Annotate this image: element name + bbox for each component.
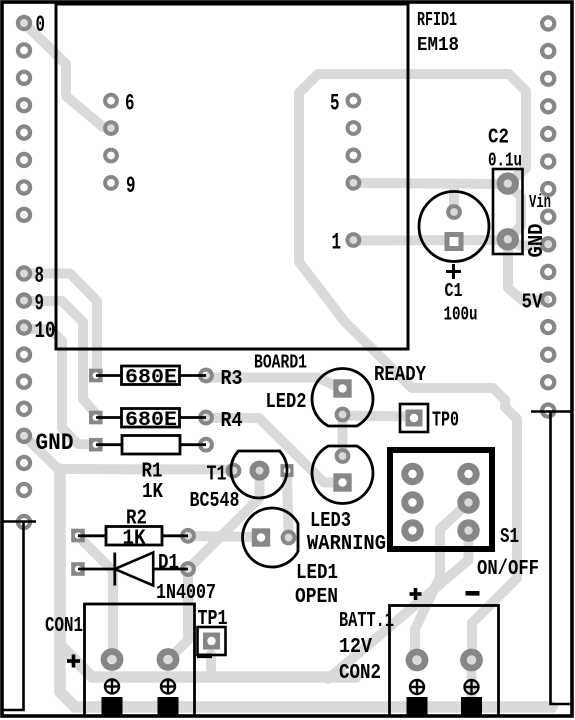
label CON2 plus — [410, 588, 422, 600]
svg-text:5V: 5V — [522, 292, 543, 315]
connector CON2 outline — [390, 606, 499, 717]
LED3 pads — [337, 450, 349, 462]
TP1 outline — [198, 627, 226, 655]
svg-text:S1: S1 — [500, 526, 519, 549]
wire C1 plus stub — [449, 184, 459, 212]
left socket strip outline — [2, 520, 36, 523]
CON1 legs — [102, 697, 123, 717]
wire GND branch down left side — [60, 469, 552, 707]
svg-text:1K: 1K — [142, 481, 163, 504]
svg-text:R4: R4 — [221, 410, 243, 433]
svg-text:9: 9 — [35, 291, 45, 317]
wire D1 cathode to CON1 minus — [168, 569, 188, 660]
svg-text:6: 6 — [125, 91, 135, 117]
wire TP1 stub — [206, 654, 216, 677]
label CON2 minus — [466, 591, 480, 596]
svg-text:T1: T1 — [207, 464, 227, 487]
svg-text:BC548: BC548 — [190, 490, 240, 513]
wire header pin1 to C1/C2 — [353, 235, 505, 246]
svg-text:100u: 100u — [444, 304, 478, 326]
wire T1 collector to LED1 — [287, 471, 289, 536]
svg-text:Vin: Vin — [529, 193, 551, 213]
wire S1 pin6 to bottom bus — [328, 531, 469, 680]
svg-text:RFID1: RFID1 — [417, 9, 457, 31]
svg-text:C2: C2 — [488, 127, 509, 150]
svg-text:OPEN: OPEN — [295, 586, 338, 609]
CON2 legs — [407, 697, 428, 717]
LED1 pads — [252, 528, 270, 546]
svg-text:1N4007: 1N4007 — [156, 582, 216, 605]
R1 pads — [89, 438, 103, 452]
svg-text:1K: 1K — [123, 528, 146, 551]
wire top bus from board to C2 — [299, 74, 526, 184]
LED2 pads — [333, 379, 351, 397]
svg-text:0.1u: 0.1u — [488, 150, 522, 172]
wire header pin4 to C2 pad1 — [353, 183, 505, 184]
T1 pads — [228, 465, 240, 477]
mid header pins 5-1 — [348, 95, 360, 107]
wire R4 to LED3 anode — [207, 418, 342, 483]
wire LED1 anode to R2 — [190, 536, 261, 537]
svg-text:WARNING: WARNING — [307, 533, 386, 556]
R2 pads — [71, 529, 85, 543]
wire S1 pin4 to CON2 plus — [415, 503, 469, 660]
wire LED2 to LED3 — [338, 415, 348, 457]
svg-text:BATT.1: BATT.1 — [339, 610, 394, 633]
CON1 screw heads — [105, 680, 119, 694]
svg-text:680E: 680E — [125, 409, 177, 432]
wire vertical from top bus down right side of board — [299, 93, 493, 388]
resistor R1 — [96, 436, 206, 455]
header J-left pins 0-7 — [18, 17, 30, 29]
svg-text:TP0: TP0 — [432, 410, 459, 433]
resistor R2 — [78, 527, 188, 551]
svg-text:LED3: LED3 — [310, 510, 351, 533]
D1 pads — [71, 562, 85, 576]
wire right bus down to CON2 minus — [472, 388, 517, 660]
svg-text:12V: 12V — [339, 636, 372, 659]
header right power pins — [542, 17, 554, 29]
TP1 pad — [203, 633, 220, 650]
C2 pads — [500, 176, 515, 191]
svg-text:1: 1 — [332, 230, 342, 256]
wire pad0 to inner header pin — [24, 23, 111, 128]
transistor T1 outline — [231, 451, 287, 498]
header J-left pins 8-GND — [18, 267, 30, 279]
svg-text:10: 10 — [35, 318, 56, 344]
wire pad10 to R1 — [24, 329, 96, 445]
C1 pads — [448, 206, 460, 218]
wire C2 pad2 to GND pin — [508, 240, 548, 246]
wire R2 pad1 to CON1 plus — [78, 536, 113, 659]
wire C2 pad2 to 5V pin — [508, 240, 545, 301]
wire GND pad to T1 — [24, 436, 233, 470]
board1 module outline — [56, 4, 408, 349]
svg-text:R2: R2 — [126, 508, 147, 531]
svg-text:8: 8 — [35, 263, 45, 289]
CON2 pads — [409, 652, 425, 668]
svg-text:5: 5 — [330, 91, 340, 117]
wire R3 to LED2 anode — [207, 378, 342, 390]
diode D1 — [78, 553, 188, 586]
svg-text:CON2: CON2 — [339, 662, 381, 685]
CON2 screw heads — [410, 680, 424, 694]
svg-text:C1: C1 — [445, 280, 463, 302]
svg-text:680E: 680E — [125, 367, 177, 390]
svg-text:READY: READY — [374, 364, 426, 387]
wire LED2 cathode to TP0 — [342, 416, 413, 417]
svg-text:TP1: TP1 — [198, 608, 228, 631]
TP0 outline — [400, 404, 428, 432]
svg-text:LED2: LED2 — [266, 391, 307, 414]
svg-text:BOARD1: BOARD1 — [254, 352, 307, 374]
wire branch to mid bus — [60, 645, 356, 677]
svg-text:ON/OFF: ON/OFF — [477, 558, 539, 581]
LED3 outline — [312, 446, 373, 503]
LED1 outline — [243, 508, 298, 567]
svg-text:D1: D1 — [158, 552, 179, 575]
label CON1 minus — [197, 654, 212, 659]
svg-text:GND: GND — [36, 430, 74, 456]
wire T1 base to D1 — [188, 471, 260, 569]
LED2 outline — [312, 369, 373, 426]
TP0 pad — [406, 410, 423, 427]
via pad bottom-left with outline cross — [18, 516, 30, 528]
wire CON2 minus pad to bottom bus — [467, 660, 477, 707]
label CON1 plus — [67, 655, 80, 668]
wire C2 pad1 to C2 pad2 — [508, 184, 521, 239]
svg-text:R3: R3 — [221, 368, 243, 391]
resistor R4 — [96, 409, 206, 433]
via pad right with outline cross — [542, 405, 554, 417]
svg-text:LED1: LED1 — [296, 562, 338, 585]
right socket strip outline — [531, 410, 572, 413]
svg-text:EM18: EM18 — [417, 34, 459, 56]
C2 outline — [493, 169, 523, 254]
connector CON1 outline — [85, 604, 195, 716]
wire pad8 to R3 — [24, 274, 97, 373]
C1 plus sign — [446, 264, 461, 279]
R4 pads — [89, 411, 103, 425]
svg-text:GND: GND — [526, 224, 549, 258]
S1 pads — [405, 466, 420, 481]
svg-text:9: 9 — [126, 173, 136, 199]
CON1 pads — [104, 651, 120, 667]
resistor R3 — [96, 366, 206, 390]
C1 outline — [419, 192, 489, 262]
R3 pads — [89, 369, 103, 383]
inner header pins 6-9 — [105, 95, 117, 107]
switch S1 outline — [390, 450, 492, 549]
svg-text:0: 0 — [36, 12, 46, 38]
svg-text:CON1: CON1 — [45, 615, 83, 638]
wire pad9 to R4 — [24, 301, 96, 414]
